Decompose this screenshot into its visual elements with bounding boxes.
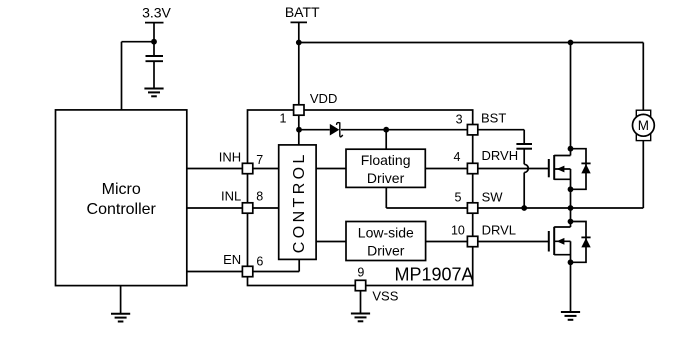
supply 3.3V bar bbox=[145, 22, 164, 24]
node VDD diode junction bbox=[296, 127, 302, 133]
wire Q1 source vertical to SW bbox=[570, 169, 572, 208]
transistor Q1 gate bar bbox=[548, 159, 550, 177]
svg-text:BST: BST bbox=[481, 110, 506, 125]
svg-text:BATT: BATT bbox=[285, 4, 320, 20]
capacitor bootstrap plates bbox=[516, 143, 532, 145]
node Q2 source bbox=[568, 259, 574, 265]
transistor Q1 channel bar bbox=[553, 155, 555, 180]
svg-text:INL: INL bbox=[221, 189, 241, 204]
wire EN internal horizontal bbox=[253, 271, 299, 273]
wire 3.3V to MCU horizontal bbox=[122, 41, 155, 43]
node SW FET chain bbox=[568, 205, 574, 211]
wire BST pin to bootstrap cap bbox=[478, 129, 524, 131]
wire INH MCU to pin7 bbox=[187, 168, 243, 170]
wire DRVH pin4 to gate Q1 bbox=[478, 168, 549, 170]
wire Q2 source stub bbox=[554, 254, 570, 256]
node junction dots bbox=[151, 39, 573, 265]
svg-text:CONTROL: CONTROL bbox=[291, 151, 308, 253]
wire Q2 body diode branch bbox=[571, 222, 587, 263]
ground under MCU bbox=[111, 314, 130, 322]
svg-text:Floating: Floating bbox=[361, 152, 411, 168]
node Q2 drain bbox=[568, 219, 574, 225]
wire Low-side Driver to pin10 bbox=[426, 241, 468, 243]
IC MP1907A box bbox=[248, 110, 473, 286]
svg-text:3.3V: 3.3V bbox=[142, 5, 171, 21]
wire Q2 body stub bbox=[554, 240, 570, 242]
wire Q2 drain stub bbox=[554, 226, 570, 228]
ground power stage bbox=[561, 312, 580, 320]
wire VSS pin to ground bbox=[360, 291, 362, 314]
svg-text:Low-side: Low-side bbox=[358, 224, 414, 240]
pin 10 square DRVL bbox=[467, 236, 477, 246]
wire CONTROL to Floating Driver bbox=[316, 168, 346, 170]
Floating Driver block bbox=[346, 149, 425, 187]
svg-text:DRVL: DRVL bbox=[482, 223, 516, 238]
pin 1 square VDD bbox=[294, 105, 304, 115]
svg-text:9: 9 bbox=[357, 265, 364, 279]
diode Q1 body diode symbol bbox=[581, 162, 590, 164]
svg-text:6: 6 bbox=[256, 254, 263, 268]
node BATT junction bbox=[296, 40, 302, 46]
wire 3.3V branch down to MCU top bbox=[121, 42, 123, 110]
node diode to floating driver bbox=[383, 127, 389, 133]
svg-text:8: 8 bbox=[256, 189, 263, 203]
wire Q1 body diode branch bbox=[571, 149, 587, 190]
wire Q1 drain vertical bbox=[570, 43, 572, 156]
svg-text:Driver: Driver bbox=[367, 242, 405, 258]
wire capacitor to ground bbox=[153, 61, 155, 88]
wire VDD pin down to CONTROL bbox=[298, 115, 300, 145]
Low-side Driver block bbox=[346, 222, 426, 261]
wire MCU ground stem bbox=[120, 286, 122, 314]
wire Q2 drain vertical bbox=[570, 208, 572, 227]
wire Q2 source vertical bbox=[570, 241, 572, 262]
wire 3.3V stem bbox=[153, 23, 155, 56]
svg-text:5: 5 bbox=[455, 191, 462, 205]
svg-text:EN: EN bbox=[223, 252, 241, 267]
supply BATT bar bbox=[291, 21, 308, 23]
svg-text:SW: SW bbox=[482, 190, 504, 205]
pin 4 square DRVH bbox=[467, 163, 477, 173]
svg-text:3: 3 bbox=[456, 113, 463, 127]
transistor Q2 gate bar bbox=[548, 231, 550, 252]
node bootstrap SW bbox=[521, 205, 527, 211]
wire right rail down to motor bbox=[642, 43, 644, 111]
wire bootstrap cap down to hop bbox=[523, 149, 525, 165]
wire hop over DRVH bbox=[524, 164, 528, 172]
svg-text:M: M bbox=[638, 118, 649, 133]
transistor Q2 channel bar bbox=[553, 227, 555, 255]
wire BATT stem down to VDD pin bbox=[298, 22, 300, 104]
ground under C1 bbox=[144, 89, 163, 97]
CONTROL block bbox=[279, 145, 316, 260]
wire top rail BATT to right bbox=[299, 42, 644, 44]
wire INL MCU to pin8 bbox=[187, 207, 243, 209]
wire SW internal to pin5 bbox=[386, 207, 467, 209]
svg-text:VDD: VDD bbox=[310, 91, 337, 106]
wire Q1 drain stub bbox=[554, 155, 570, 157]
pin 6 square EN bbox=[242, 266, 252, 276]
svg-text:7: 7 bbox=[256, 153, 263, 167]
wire Floating Driver to pin4 bbox=[425, 168, 467, 170]
wire Floating Driver bottom to SW bbox=[385, 187, 387, 208]
capacitor C1 plates bbox=[146, 55, 164, 57]
wire hop to SW node bbox=[523, 173, 525, 209]
wire Q1 body stub bbox=[554, 168, 570, 170]
svg-text:Controller: Controller bbox=[87, 201, 157, 218]
node 3.3V junction bbox=[151, 39, 157, 45]
transistor Q2 body arrow bbox=[557, 238, 565, 245]
svg-text:4: 4 bbox=[454, 150, 461, 164]
wire EN internal up to CONTROL bbox=[298, 259, 300, 271]
svg-text:INH: INH bbox=[219, 150, 241, 165]
wire motor bottom to SW line bbox=[642, 141, 644, 208]
motor M1 frame bbox=[636, 110, 650, 140]
svg-text:MP1907A: MP1907A bbox=[395, 264, 474, 284]
wire INH internal pin7 to CONTROL bbox=[253, 168, 279, 170]
diode D1 bootstrap bbox=[330, 124, 340, 136]
motor M1 circle bbox=[633, 114, 655, 136]
wire diode cathode to BST pin bbox=[341, 129, 467, 131]
node Q1 drain bbox=[568, 146, 574, 152]
pin 8 square INL bbox=[242, 203, 252, 213]
pin 9 square VSS bbox=[355, 280, 365, 290]
diode Q2 body diode symbol bbox=[581, 236, 590, 238]
wire DRVL pin10 to gate Q2 bbox=[478, 241, 549, 243]
transistor Q1 body arrow bbox=[557, 166, 565, 173]
svg-text:DRVH: DRVH bbox=[482, 148, 519, 163]
wire CONTROL to Low-side Driver bbox=[316, 241, 346, 243]
ground VSS bbox=[351, 314, 370, 322]
svg-text:1: 1 bbox=[280, 112, 287, 126]
wire INL internal pin8 to CONTROL bbox=[253, 207, 279, 209]
pin 3 square BST bbox=[467, 125, 477, 135]
node Q1 source bbox=[568, 186, 574, 192]
pin 7 square INH bbox=[242, 163, 252, 173]
svg-text:VSS: VSS bbox=[372, 289, 398, 304]
svg-text:10: 10 bbox=[451, 224, 465, 238]
node top rail to Q1 bbox=[568, 40, 574, 46]
wire VDD node to diode anode bbox=[299, 129, 330, 131]
svg-text:Driver: Driver bbox=[367, 170, 405, 186]
svg-text:Micro: Micro bbox=[102, 181, 141, 198]
wire EN MCU to pin6 bbox=[187, 271, 243, 273]
wire Q1 source stub bbox=[554, 178, 570, 180]
MCU box bbox=[56, 110, 187, 286]
wire SW line pin5 to right rail bbox=[478, 207, 644, 209]
pin 5 square SW bbox=[467, 203, 477, 213]
wire Q2 source to ground bbox=[570, 262, 572, 312]
wire node to Floating Driver top bbox=[385, 130, 387, 150]
